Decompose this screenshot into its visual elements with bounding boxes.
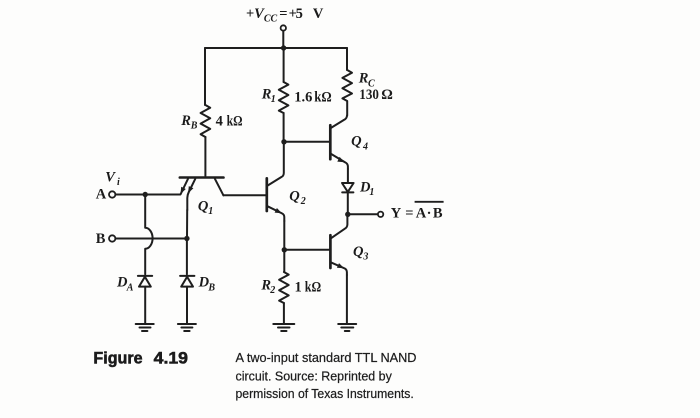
diode D1 <box>342 183 354 192</box>
ground (Q3) <box>338 324 356 331</box>
svg-text:4: 4 <box>362 141 368 152</box>
input A terminal <box>109 191 115 197</box>
svg-text:1: 1 <box>369 187 374 198</box>
output terminal Y <box>378 212 383 217</box>
svg-text:permission of Texas Instrument: permission of Texas Instruments. <box>236 386 414 401</box>
svg-text:3: 3 <box>362 252 368 263</box>
svg-text:A two-input standard TTL NAND: A two-input standard TTL NAND <box>236 350 417 365</box>
ground (DB) <box>178 324 196 331</box>
svg-text:B: B <box>96 231 106 247</box>
wire DA to ground <box>144 287 146 324</box>
svg-text:Q: Q <box>351 134 362 150</box>
svg-text:2: 2 <box>300 196 306 207</box>
wire DB to ground <box>186 287 188 324</box>
resistor R1 <box>279 82 289 113</box>
svg-text:kΩ: kΩ <box>305 279 321 295</box>
node output Y <box>345 212 350 217</box>
caption <box>93 350 416 402</box>
svg-text:2: 2 <box>269 285 275 296</box>
wire A junction down with hop over B <box>145 195 152 275</box>
diode DB <box>180 275 194 277</box>
arrow Q1 emitter2 <box>188 186 193 193</box>
svg-text:Q: Q <box>198 199 209 215</box>
svg-text:A: A <box>96 187 107 203</box>
arrow Q2 emitter <box>275 208 282 213</box>
input B terminal <box>109 235 115 241</box>
wire bus to RC <box>346 48 348 70</box>
resistor R2 <box>279 272 289 303</box>
wire node to Q3 base <box>284 249 330 251</box>
wire Q3 emitter to ground <box>346 275 348 324</box>
transistor Q2 <box>265 178 268 211</box>
svg-text:A: A <box>126 282 134 293</box>
emitter arrowheads <box>181 157 345 268</box>
svg-text:4: 4 <box>216 113 223 129</box>
svg-text:Ω: Ω <box>381 87 393 103</box>
wire Vcc stub <box>282 31 284 48</box>
svg-text:= +5: = +5 <box>279 6 303 22</box>
transistor Q1 (multi-emitter) <box>180 176 224 179</box>
wire D1 to output node <box>347 192 349 214</box>
svg-text:B: B <box>207 282 215 293</box>
wire R1 to node <box>283 113 285 142</box>
svg-text:Q: Q <box>353 244 364 260</box>
wire top bus <box>205 47 347 49</box>
svg-text:Q: Q <box>289 188 300 204</box>
node Q2-emitter/Q3-base/R2 <box>282 247 287 252</box>
transistor Q3 <box>329 235 332 268</box>
wire Q2 emitter down <box>283 221 285 250</box>
wire node to R2 <box>283 250 285 272</box>
svg-text:A · B: A · B <box>416 206 443 222</box>
Vcc terminal <box>281 25 286 30</box>
svg-text:circuit. Source: Reprinted by: circuit. Source: Reprinted by <box>236 368 393 383</box>
svg-text:V: V <box>313 6 324 22</box>
svg-text:1.6: 1.6 <box>294 89 312 105</box>
arrow Q1 emitter1 <box>181 187 186 194</box>
wire B junction up to Q1 emitter2 <box>186 210 188 239</box>
wire R2 to ground <box>283 303 285 324</box>
wire B junction down to DB <box>186 239 188 275</box>
overline on A·B <box>415 201 444 203</box>
wire Q4 emitter to D1 <box>347 169 349 183</box>
wire input B <box>115 238 186 240</box>
node R1/Q4-base/Q2-collector <box>281 139 286 144</box>
svg-text:Figure: Figure <box>93 350 142 368</box>
wire bus to RB <box>204 48 206 105</box>
svg-text:i: i <box>117 177 120 188</box>
resistor RC <box>342 70 352 116</box>
ground (R2) <box>273 324 294 331</box>
svg-text:V: V <box>105 170 116 186</box>
node B junction <box>184 236 189 241</box>
node Vcc junction <box>281 45 286 50</box>
wire RB to Q1 base <box>204 137 206 176</box>
svg-text:130: 130 <box>359 87 379 103</box>
node A junction <box>143 192 148 197</box>
arrow Q3 emitter <box>337 263 344 268</box>
resistor RB <box>201 105 211 137</box>
svg-text:+VCC: +VCC <box>246 6 278 25</box>
svg-text:1: 1 <box>271 94 276 105</box>
svg-text:1: 1 <box>295 279 302 295</box>
svg-text:kΩ: kΩ <box>227 113 243 129</box>
wire output <box>348 213 378 215</box>
svg-text:=: = <box>405 206 413 222</box>
svg-text:kΩ: kΩ <box>314 89 332 105</box>
wire Q1 collector to Q2 base <box>223 194 266 196</box>
svg-text:1: 1 <box>208 206 213 217</box>
ground (DA) <box>136 324 154 331</box>
svg-text:B: B <box>190 120 198 131</box>
svg-text:R: R <box>180 113 191 129</box>
wire node to Q4 base <box>284 141 330 143</box>
svg-text:4.19: 4.19 <box>154 350 188 368</box>
arrow Q4 emitter <box>337 157 344 162</box>
wire input A <box>115 194 180 196</box>
wire bus to R1 <box>283 48 285 82</box>
diode DA <box>138 275 152 277</box>
transistor Q4 <box>329 125 332 159</box>
svg-text:Y: Y <box>391 206 402 222</box>
